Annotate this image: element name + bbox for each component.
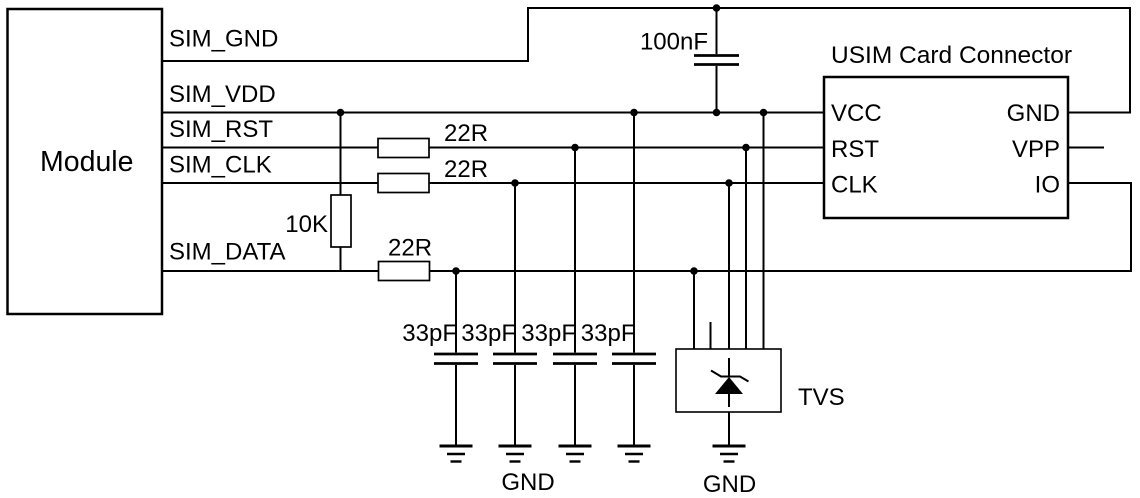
- wire SIM_RST: [162, 147, 824, 149]
- capacitor C3 33pF: [553, 148, 597, 446]
- wire SIM_CLK: [162, 182, 824, 184]
- junction VDD/100nF: [713, 109, 721, 117]
- svg-text:SIM_CLK: SIM_CLK: [169, 152, 272, 179]
- svg-text:33pF: 33pF: [402, 320, 457, 347]
- resistor R4 10K: [331, 195, 351, 247]
- svg-text:SIM_GND: SIM_GND: [169, 26, 278, 53]
- capacitor C1 33pF: [434, 271, 478, 445]
- resistor R1 22R (RST): [378, 139, 429, 158]
- TVS diode anode lead: [728, 394, 730, 407]
- svg-text:GND: GND: [703, 471, 756, 498]
- resistor R3 22R (DATA): [379, 262, 430, 281]
- junction CLK/TVS: [725, 179, 733, 187]
- capacitor C2 33pF: [493, 183, 537, 445]
- junction RST/TVS: [742, 144, 750, 152]
- svg-text:Module: Module: [40, 146, 133, 178]
- svg-text:SIM_RST: SIM_RST: [169, 116, 273, 143]
- wire IO drop: [1130, 183, 1132, 272]
- ground (C1): [440, 446, 473, 462]
- svg-text:22R: 22R: [444, 156, 488, 183]
- junction VDD/10K: [337, 109, 345, 117]
- svg-text:GND: GND: [1007, 100, 1060, 127]
- junction DATA/TVS: [690, 267, 698, 275]
- TVS box: [676, 349, 781, 412]
- junction RST/C3: [571, 144, 579, 152]
- svg-text:CLK: CLK: [831, 172, 878, 199]
- junction VDD/TVS: [760, 109, 768, 117]
- junction DATA/C1: [452, 267, 460, 275]
- capacitor C5 100nF: [694, 8, 739, 113]
- wire 10K branch: [340, 113, 342, 272]
- svg-text:33pF: 33pF: [581, 320, 636, 347]
- TVS diode cathode lead: [728, 358, 730, 377]
- svg-text:100nF: 100nF: [640, 29, 708, 56]
- wire TVS pin CLK: [728, 183, 730, 349]
- capacitor C4 33pF: [612, 113, 656, 446]
- svg-text:SIM_DATA: SIM_DATA: [169, 239, 285, 266]
- USIM card connector box: [824, 77, 1068, 218]
- wire SIM_VDD: [162, 112, 824, 114]
- resistor R2 22R (CLK): [378, 174, 429, 193]
- wire TVS ground lead: [728, 412, 730, 445]
- svg-text:33pF: 33pF: [521, 320, 576, 347]
- junction top rail/100nF: [713, 4, 721, 12]
- wire TVS pin NC stub: [710, 322, 712, 349]
- wire TVS pin RST: [745, 148, 747, 350]
- svg-text:TVS: TVS: [798, 384, 845, 411]
- svg-text:33pF: 33pF: [461, 320, 516, 347]
- junction VDD/C4: [630, 109, 638, 117]
- ground (C2): [499, 446, 532, 462]
- wire VPP stub: [1068, 147, 1104, 149]
- wire top GND rail: [527, 7, 1130, 9]
- wire SIM_GND: [162, 60, 528, 62]
- svg-text:GND: GND: [501, 469, 554, 496]
- ground (C4): [618, 446, 651, 462]
- module box: [8, 9, 163, 314]
- wire TVS pin DATA: [693, 271, 695, 349]
- TVS diode triangle: [715, 377, 743, 394]
- svg-text:USIM Card Connector: USIM Card Connector: [831, 42, 1072, 69]
- svg-text:22R: 22R: [444, 120, 488, 147]
- svg-text:VCC: VCC: [831, 100, 882, 127]
- ground (TVS): [713, 446, 746, 462]
- ground (C3): [559, 446, 592, 462]
- svg-text:VPP: VPP: [1012, 136, 1060, 163]
- svg-text:RST: RST: [831, 136, 879, 163]
- svg-text:SIM_VDD: SIM_VDD: [169, 81, 276, 108]
- wire GND pin: [1068, 112, 1131, 114]
- wire GND drop: [1129, 7, 1131, 113]
- junction CLK/C2: [511, 179, 519, 187]
- wire SIM_DATA: [162, 270, 1131, 272]
- svg-text:IO: IO: [1035, 172, 1060, 199]
- svg-text:22R: 22R: [388, 235, 432, 262]
- wire SIM_GND riser: [527, 8, 529, 62]
- wire TVS pin VDD: [763, 113, 765, 350]
- TVS zener bar: [711, 371, 749, 382]
- wire IO pin: [1068, 182, 1132, 184]
- svg-text:10K: 10K: [285, 211, 328, 238]
